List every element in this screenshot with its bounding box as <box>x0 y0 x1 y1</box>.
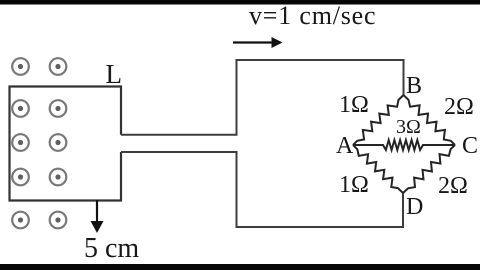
svg-text:v=1 cm/sec: v=1 cm/sec <box>249 1 376 30</box>
svg-text:3Ω: 3Ω <box>396 116 421 138</box>
svg-text:L: L <box>106 59 123 89</box>
svg-text:B: B <box>406 73 422 99</box>
svg-text:C: C <box>462 133 478 159</box>
svg-text:5 cm: 5 cm <box>84 233 139 264</box>
svg-text:2Ω: 2Ω <box>444 94 474 120</box>
svg-text:2Ω: 2Ω <box>438 173 468 199</box>
svg-text:1Ω: 1Ω <box>339 92 369 118</box>
svg-text:D: D <box>406 194 423 220</box>
svg-text:1Ω: 1Ω <box>339 172 369 198</box>
svg-text:A: A <box>336 133 354 159</box>
